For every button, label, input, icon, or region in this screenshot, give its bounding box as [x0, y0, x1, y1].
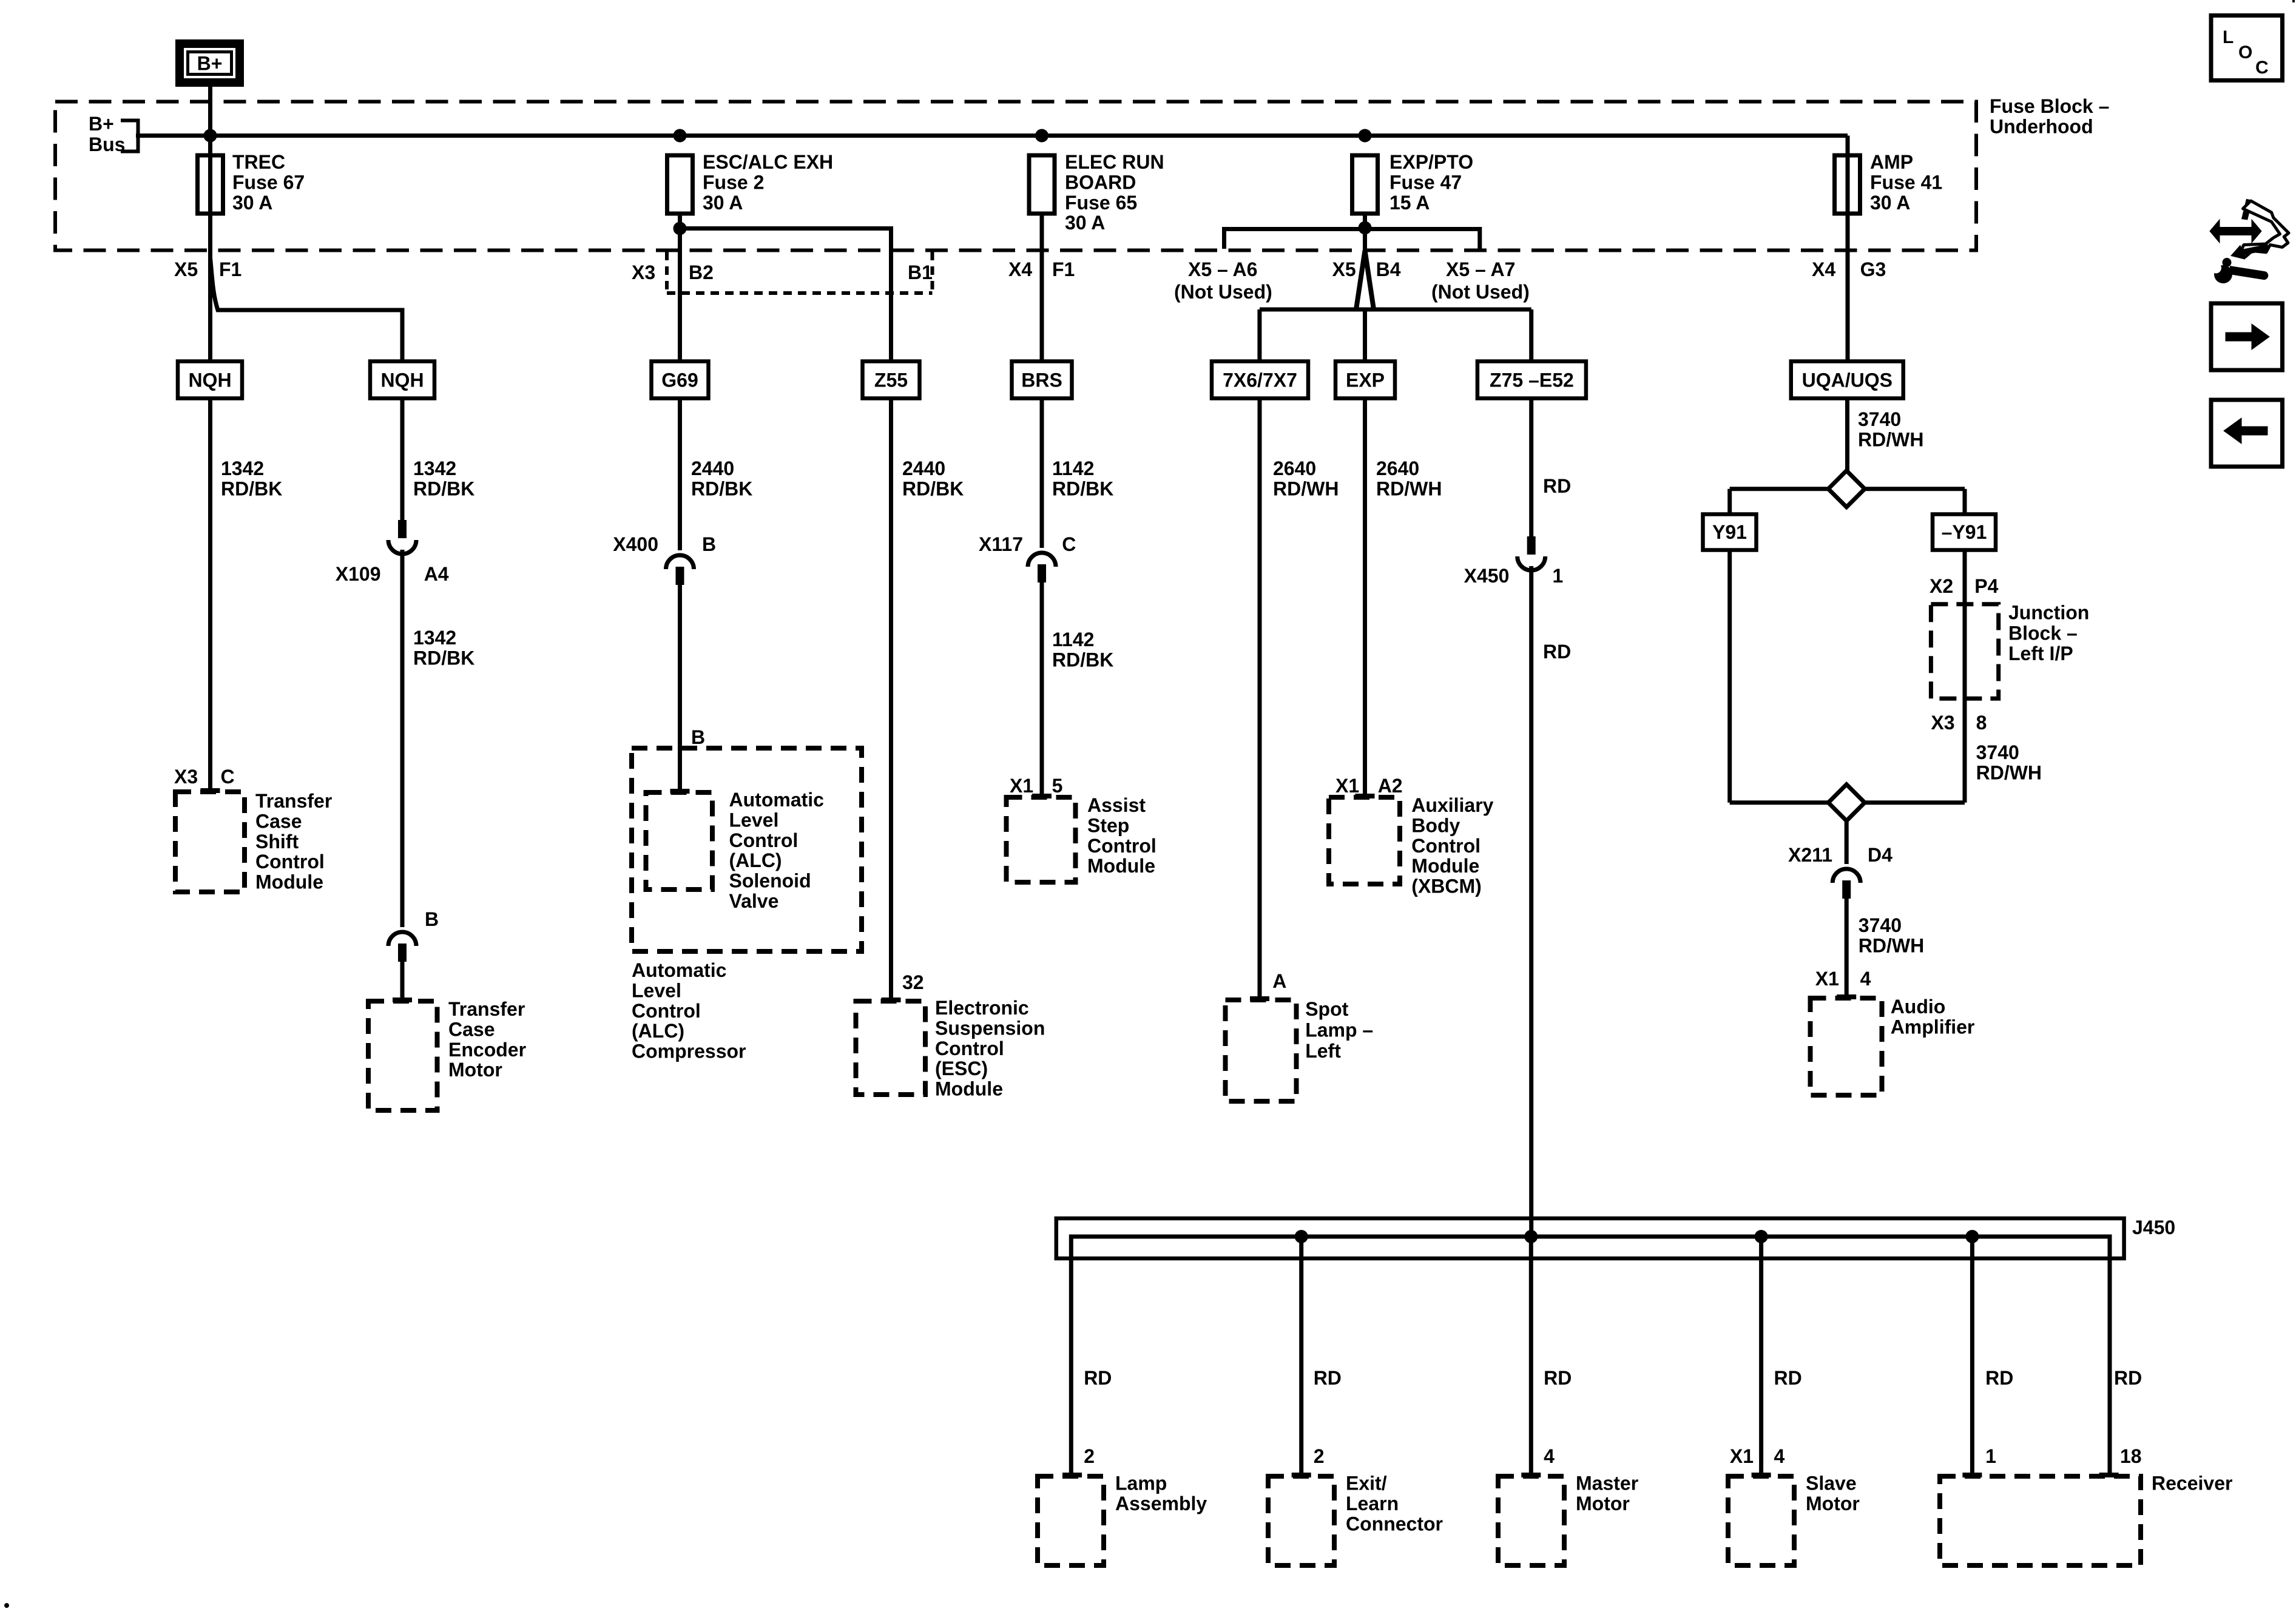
svg-text:C: C	[1062, 533, 1076, 555]
svg-text:18: 18	[2120, 1445, 2142, 1467]
svg-text:Fuse 67: Fuse 67	[232, 171, 305, 193]
svg-text:1: 1	[1553, 565, 1564, 587]
svg-text:Control: Control	[729, 829, 799, 851]
svg-text:Automatic: Automatic	[632, 959, 726, 981]
svg-text:8: 8	[1976, 712, 1987, 734]
svg-text:Assist: Assist	[1087, 794, 1146, 816]
svg-text:2: 2	[1314, 1445, 1325, 1467]
svg-text:Fuse 65: Fuse 65	[1065, 192, 1137, 214]
svg-text:Junction: Junction	[2008, 602, 2089, 624]
svg-text:Amplifier: Amplifier	[1891, 1016, 1975, 1038]
svg-text:X2: X2	[1930, 575, 1953, 597]
svg-text:Encoder: Encoder	[448, 1039, 526, 1061]
svg-text:5: 5	[1052, 775, 1063, 797]
svg-text:Control: Control	[1411, 835, 1481, 857]
svg-text:Y91: Y91	[1712, 521, 1747, 543]
svg-text:3740: 3740	[1859, 914, 1902, 936]
svg-text:4: 4	[1774, 1445, 1785, 1467]
svg-text:X1: X1	[1335, 775, 1359, 797]
svg-text:Control: Control	[632, 1000, 701, 1022]
svg-text:Level: Level	[632, 979, 681, 1001]
svg-text:Case: Case	[255, 810, 302, 832]
svg-text:X5: X5	[1332, 258, 1356, 280]
svg-text:B: B	[702, 533, 716, 555]
svg-text:Block –: Block –	[2008, 622, 2078, 644]
svg-text:F1: F1	[219, 258, 241, 280]
svg-text:Bus: Bus	[89, 133, 125, 155]
svg-text:B: B	[691, 726, 705, 748]
svg-text:Fuse Block –: Fuse Block –	[1990, 95, 2109, 117]
svg-text:Z75 –E52: Z75 –E52	[1490, 370, 1574, 391]
svg-text:2440: 2440	[691, 457, 734, 479]
svg-text:Underhood: Underhood	[1990, 115, 2093, 137]
svg-text:Valve: Valve	[729, 890, 779, 912]
svg-text:G3: G3	[1860, 258, 1886, 280]
svg-text:Master: Master	[1576, 1473, 1638, 1494]
svg-text:1342: 1342	[413, 457, 456, 479]
svg-text:Motor: Motor	[1576, 1493, 1630, 1514]
svg-text:Fuse 2: Fuse 2	[703, 171, 764, 193]
svg-text:RD: RD	[1774, 1367, 1802, 1389]
svg-text:NQH: NQH	[380, 370, 424, 391]
svg-text:L: L	[2223, 27, 2234, 47]
svg-text:2: 2	[1084, 1445, 1095, 1467]
svg-text:Left I/P: Left I/P	[2008, 643, 2073, 664]
svg-text:X1: X1	[1010, 775, 1033, 797]
svg-text:A: A	[1272, 970, 1286, 992]
svg-text:X1: X1	[1730, 1445, 1754, 1467]
svg-text:RD/BK: RD/BK	[1052, 478, 1113, 499]
svg-text:Transfer: Transfer	[255, 790, 332, 812]
svg-text:X3: X3	[174, 766, 198, 788]
svg-text:B+: B+	[197, 53, 223, 75]
svg-text:Electronic: Electronic	[935, 997, 1029, 1019]
svg-text:RD: RD	[1544, 1367, 1572, 1389]
svg-text:X3: X3	[632, 262, 655, 283]
svg-text:RD: RD	[1985, 1367, 2013, 1389]
svg-text:UQA/UQS: UQA/UQS	[1802, 370, 1893, 391]
svg-text:ESC/ALC EXH: ESC/ALC EXH	[703, 151, 833, 173]
svg-text:Fuse 41: Fuse 41	[1870, 171, 1942, 193]
svg-text:1342: 1342	[221, 457, 264, 479]
svg-text:NQH: NQH	[188, 370, 231, 391]
svg-text:Connector: Connector	[1346, 1513, 1443, 1534]
svg-text:BRS: BRS	[1021, 370, 1062, 391]
svg-text:RD/BK: RD/BK	[902, 478, 964, 499]
svg-text:G69: G69	[661, 370, 698, 391]
svg-text:(XBCM): (XBCM)	[1411, 876, 1482, 897]
svg-text:RD/BK: RD/BK	[691, 478, 752, 499]
svg-text:Step: Step	[1087, 814, 1129, 836]
svg-text:RD/WH: RD/WH	[1376, 478, 1442, 499]
svg-text:C: C	[2255, 58, 2269, 78]
svg-text:4: 4	[1544, 1445, 1555, 1467]
svg-text:32: 32	[902, 971, 924, 993]
svg-text:3740: 3740	[1976, 741, 2019, 763]
svg-text:B1: B1	[908, 262, 933, 283]
svg-text:Learn: Learn	[1346, 1493, 1399, 1514]
svg-text:X450: X450	[1464, 565, 1510, 587]
svg-text:Control: Control	[1087, 835, 1156, 857]
svg-text:Compressor: Compressor	[632, 1041, 746, 1062]
svg-text:Module: Module	[1411, 855, 1479, 877]
svg-text:RD/WH: RD/WH	[1273, 478, 1339, 499]
svg-text:Receiver: Receiver	[2152, 1473, 2232, 1494]
svg-text:D4: D4	[1868, 844, 1893, 866]
svg-text:RD/WH: RD/WH	[1858, 428, 1923, 450]
svg-text:X5 – A6: X5 – A6	[1188, 258, 1257, 280]
svg-text:ELEC RUN: ELEC RUN	[1065, 151, 1164, 173]
svg-text:AMP: AMP	[1870, 151, 1913, 173]
svg-text:Exit/: Exit/	[1346, 1473, 1387, 1494]
svg-text:EXP/PTO: EXP/PTO	[1389, 151, 1473, 173]
svg-text:X5: X5	[174, 258, 198, 280]
svg-text:2640: 2640	[1273, 457, 1316, 479]
svg-text:X117: X117	[979, 533, 1023, 555]
svg-text:(Not Used): (Not Used)	[1431, 281, 1530, 303]
svg-text:RD: RD	[2114, 1367, 2142, 1389]
svg-text:15 A: 15 A	[1389, 192, 1430, 214]
svg-text:X5 – A7: X5 – A7	[1446, 258, 1515, 280]
svg-text:2640: 2640	[1376, 457, 1419, 479]
svg-text:30 A: 30 A	[232, 192, 272, 214]
svg-text:(Not Used): (Not Used)	[1174, 281, 1272, 303]
svg-text:30 A: 30 A	[1065, 212, 1105, 234]
svg-text:B4: B4	[1376, 258, 1401, 280]
svg-text:Module: Module	[255, 871, 323, 893]
svg-text:Spot: Spot	[1305, 998, 1348, 1020]
svg-text:RD/BK: RD/BK	[221, 478, 282, 499]
svg-text:(ALC): (ALC)	[632, 1020, 684, 1042]
svg-text:B+: B+	[89, 113, 114, 135]
svg-text:RD/WH: RD/WH	[1976, 761, 2042, 783]
svg-text:Assembly: Assembly	[1115, 1493, 1207, 1514]
svg-text:X109: X109	[336, 563, 381, 585]
svg-text:Lamp: Lamp	[1115, 1473, 1167, 1494]
svg-text:Transfer: Transfer	[448, 998, 525, 1020]
svg-text:Audio: Audio	[1891, 996, 1946, 1018]
svg-text:Module: Module	[1087, 855, 1155, 877]
svg-text:RD: RD	[1084, 1367, 1112, 1389]
svg-text:Suspension: Suspension	[935, 1017, 1045, 1039]
svg-text:EXP: EXP	[1346, 370, 1385, 391]
svg-text:X3: X3	[1931, 712, 1954, 734]
svg-text:Lamp –: Lamp –	[1305, 1019, 1373, 1041]
svg-text:Solenoid: Solenoid	[729, 870, 811, 892]
svg-text:TREC: TREC	[232, 151, 285, 173]
svg-text:Shift: Shift	[255, 831, 299, 852]
svg-text:X211: X211	[1788, 844, 1832, 866]
svg-text:B: B	[425, 908, 439, 930]
svg-text:Slave: Slave	[1806, 1473, 1857, 1494]
svg-text:Module: Module	[935, 1078, 1003, 1100]
svg-text:BOARD: BOARD	[1065, 171, 1136, 193]
svg-text:Level: Level	[729, 809, 779, 831]
svg-text:X1: X1	[1815, 968, 1839, 990]
svg-text:X4: X4	[1812, 258, 1835, 280]
svg-text:RD/WH: RD/WH	[1859, 934, 1924, 956]
svg-text:RD/BK: RD/BK	[413, 478, 474, 499]
svg-text:30 A: 30 A	[1870, 192, 1910, 214]
svg-text:Body: Body	[1411, 814, 1460, 836]
svg-text:O: O	[2238, 42, 2252, 62]
svg-text:4: 4	[1860, 968, 1871, 990]
svg-text:P4: P4	[1974, 575, 1998, 597]
svg-text:A4: A4	[424, 563, 449, 585]
svg-text:RD: RD	[1543, 641, 1571, 663]
svg-text:RD: RD	[1543, 475, 1571, 497]
svg-text:RD/BK: RD/BK	[413, 647, 474, 669]
svg-text:3740: 3740	[1858, 408, 1901, 430]
svg-text:Fuse 47: Fuse 47	[1389, 171, 1462, 193]
svg-text:2440: 2440	[902, 457, 945, 479]
svg-text:J450: J450	[2132, 1217, 2175, 1238]
svg-text:B2: B2	[689, 262, 714, 283]
svg-text:RD/BK: RD/BK	[1052, 649, 1113, 670]
svg-text:F1: F1	[1052, 258, 1075, 280]
svg-text:Motor: Motor	[448, 1059, 502, 1081]
svg-text:7X6/7X7: 7X6/7X7	[1223, 370, 1297, 391]
svg-text:1142: 1142	[1052, 629, 1094, 650]
svg-text:A2: A2	[1378, 775, 1403, 797]
svg-text:C: C	[221, 766, 235, 788]
svg-text:RD: RD	[1314, 1367, 1342, 1389]
svg-text:Control: Control	[255, 851, 325, 873]
svg-text:Automatic: Automatic	[729, 789, 824, 811]
svg-text:X400: X400	[613, 533, 658, 555]
svg-text:30 A: 30 A	[703, 192, 743, 214]
svg-text:Case: Case	[448, 1018, 495, 1040]
svg-text:(ESC): (ESC)	[935, 1058, 988, 1079]
svg-text:1142: 1142	[1052, 457, 1094, 479]
svg-text:Auxiliary: Auxiliary	[1411, 794, 1493, 816]
svg-text:X4: X4	[1008, 258, 1032, 280]
svg-text:(ALC): (ALC)	[729, 849, 782, 871]
svg-text:Left: Left	[1305, 1040, 1341, 1062]
svg-text:1342: 1342	[413, 627, 456, 649]
svg-text:Z55: Z55	[874, 370, 908, 391]
svg-text:Motor: Motor	[1806, 1493, 1860, 1514]
svg-text:1: 1	[1985, 1445, 1996, 1467]
svg-text:Control: Control	[935, 1038, 1004, 1059]
svg-text:–Y91: –Y91	[1942, 521, 1987, 543]
